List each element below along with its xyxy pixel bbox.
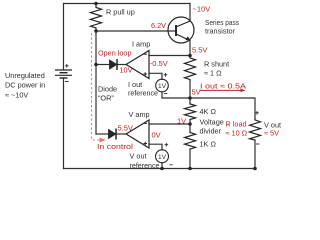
emitter arrowhead bbox=[185, 36, 190, 40]
svg-text:10V: 10V bbox=[120, 66, 133, 75]
wire R shunt bottom to 5V rail bbox=[189, 81, 191, 98]
wire I out reference minus to 5V node bbox=[162, 92, 190, 98]
node B (base node, bottom of R pull up) bbox=[94, 29, 98, 33]
label I amp bbox=[132, 40, 150, 49]
svg-text:5.5V: 5.5V bbox=[118, 124, 133, 133]
svg-text:transistor: transistor bbox=[205, 27, 236, 36]
label I out reference value bbox=[158, 83, 167, 90]
svg-text:-0.5V: -0.5V bbox=[150, 59, 168, 68]
wire 4K bottom to tap node bbox=[189, 120, 191, 125]
wire base (node to transistor) bbox=[96, 30, 176, 32]
wire lower diode cathode to V amp output bbox=[116, 133, 126, 135]
svg-text:1V: 1V bbox=[158, 83, 167, 90]
svg-text:1V: 1V bbox=[177, 116, 186, 125]
node A (top of R pull up) bbox=[94, 2, 98, 6]
wire left rail lower (battery bottom lead) bbox=[63, 78, 65, 169]
source I out reference 1V bbox=[156, 73, 169, 94]
op-amp V amp (points left) bbox=[126, 120, 149, 148]
wire collector to top rail bbox=[189, 4, 191, 22]
svg-text:Diode: Diode bbox=[98, 84, 117, 93]
wire V out reference minus to bottom rail bbox=[161, 163, 163, 169]
wire tap node to V amp inverting input bbox=[149, 123, 190, 125]
svg-text:R shunt: R shunt bbox=[204, 60, 229, 69]
svg-text:5.5V: 5.5V bbox=[192, 45, 207, 54]
wire voltage divider upper (5V to 4K) bbox=[189, 98, 191, 102]
resistor R pull up bbox=[91, 4, 102, 31]
resistor R load bbox=[250, 111, 261, 144]
label V out reference bbox=[130, 151, 160, 170]
label I out reference bbox=[128, 80, 158, 98]
I out arrow bbox=[200, 89, 246, 92]
label voltage divider bbox=[200, 118, 224, 136]
svg-text:I amp: I amp bbox=[132, 40, 150, 49]
label ~10V bbox=[193, 4, 211, 13]
wire left rail upper (battery top lead) bbox=[63, 4, 65, 70]
label R load bbox=[226, 120, 248, 138]
diode D2 (V amp, lower) bbox=[109, 129, 117, 140]
label Open loop bbox=[98, 48, 132, 57]
node H (1K ground) bbox=[188, 167, 192, 171]
svg-text:6.2V: 6.2V bbox=[151, 21, 166, 30]
svg-text:1K Ω: 1K Ω bbox=[200, 139, 217, 148]
svg-text:V out: V out bbox=[130, 151, 147, 160]
node E (5V node) bbox=[188, 96, 192, 100]
svg-text:R pull up: R pull up bbox=[106, 8, 135, 17]
label I out 0.5A bbox=[200, 81, 246, 90]
svg-text:DC power in: DC power in bbox=[5, 81, 45, 90]
svg-text:I out: I out bbox=[128, 80, 142, 89]
wire diode OR vertical branch bbox=[95, 31, 97, 134]
label 1K bbox=[200, 139, 217, 148]
wire emitter down to R shunt bbox=[189, 41, 191, 56]
label In control bbox=[97, 142, 133, 151]
wire 1K bottom to bottom rail bbox=[189, 150, 191, 169]
label 6.2V bbox=[151, 21, 166, 30]
svg-text:V amp: V amp bbox=[129, 110, 150, 119]
resistor 4K (divider top) bbox=[185, 102, 196, 120]
svg-text:Voltage: Voltage bbox=[200, 118, 224, 127]
label V amp bbox=[129, 110, 150, 119]
label 5.5V (emitter) bbox=[192, 45, 207, 54]
svg-text:≈ 1 Ω: ≈ 1 Ω bbox=[204, 69, 222, 78]
node G (V out ref ground) bbox=[160, 167, 164, 171]
wire upper diode cathode to I amp output bbox=[117, 64, 126, 66]
node F (divider tap 1V) bbox=[188, 122, 192, 126]
wire bottom rail bbox=[64, 168, 256, 170]
label R pull up bbox=[106, 8, 135, 17]
node D (5.5V emitter node) bbox=[188, 54, 192, 58]
label 5V bbox=[192, 88, 201, 97]
label 4K bbox=[200, 107, 217, 116]
svg-text:I out ≈ 0.5A: I out ≈ 0.5A bbox=[200, 81, 246, 90]
svg-text:4K Ω: 4K Ω bbox=[200, 107, 217, 116]
svg-text:Open loop: Open loop bbox=[98, 48, 132, 57]
label 0V bbox=[152, 131, 161, 140]
label V out bbox=[264, 121, 281, 138]
label V out reference value bbox=[158, 154, 167, 161]
resistor R shunt bbox=[185, 56, 196, 82]
label R shunt bbox=[204, 60, 229, 78]
resistor 1K (divider bottom) bbox=[185, 131, 196, 150]
wire top rail bbox=[64, 3, 191, 5]
svg-text:In control: In control bbox=[97, 142, 133, 151]
source V out reference 1V bbox=[156, 143, 173, 165]
svg-text:Series pass: Series pass bbox=[205, 18, 239, 27]
svg-text:≈ 5V: ≈ 5V bbox=[264, 129, 279, 138]
transistor Q1 series pass bbox=[168, 17, 194, 43]
svg-text:~10V: ~10V bbox=[193, 4, 211, 13]
label series pass transistor bbox=[205, 18, 239, 36]
node C (upper diode branch) bbox=[94, 63, 98, 67]
label unregulated DC power in bbox=[5, 71, 45, 99]
wire tap node to 1K top bbox=[189, 124, 191, 131]
feedback loop arrowhead bbox=[100, 138, 107, 143]
svg-text:≈ ~10V: ≈ ~10V bbox=[5, 90, 28, 99]
svg-text:Unregulated: Unregulated bbox=[5, 71, 45, 80]
wire I amp inverting input to 5.5V node bbox=[149, 55, 190, 57]
svg-text:≈ 10 Ω: ≈ 10 Ω bbox=[226, 129, 248, 138]
op-amp I amp (points left) bbox=[126, 51, 149, 79]
label 5.5V (V amp output) bbox=[118, 124, 133, 133]
wire upper diode anode bbox=[96, 64, 110, 66]
svg-text:divider: divider bbox=[200, 127, 222, 136]
label 1V (divider tap) bbox=[177, 116, 186, 125]
label diode OR bbox=[98, 84, 117, 102]
battery (Unregulated DC power in) bbox=[55, 64, 72, 82]
svg-text:R load: R load bbox=[226, 120, 247, 129]
label 10V bbox=[120, 66, 133, 75]
label -0.5V bbox=[150, 59, 168, 68]
svg-text:reference: reference bbox=[128, 89, 158, 98]
node I (R load ground corner) bbox=[253, 167, 257, 171]
feedback loop dashed path bbox=[92, 33, 101, 140]
wire R load bottom to bottom rail bbox=[254, 140, 256, 169]
wire I amp non-inverting input to I out reference bbox=[149, 73, 162, 79]
diode D1 (I amp, upper) bbox=[110, 59, 118, 70]
wire V amp non-inverting input to V out reference bbox=[149, 144, 162, 150]
wire 5V rail to R load bbox=[190, 98, 255, 118]
svg-text:“OR”: “OR” bbox=[98, 94, 114, 103]
svg-text:reference: reference bbox=[130, 161, 160, 170]
wire lower diode anode bbox=[96, 133, 109, 135]
svg-text:0V: 0V bbox=[152, 131, 161, 140]
